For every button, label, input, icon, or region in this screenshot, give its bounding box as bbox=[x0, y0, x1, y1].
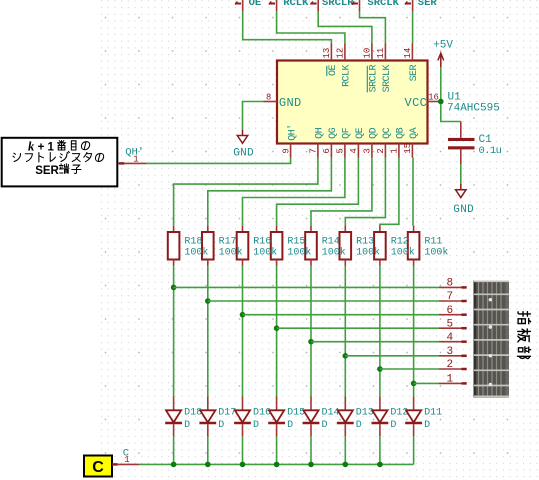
svg-text:1: 1 bbox=[390, 148, 400, 153]
connector pin 2 bbox=[439, 359, 467, 371]
pin 6 bbox=[322, 144, 332, 158]
junction node 5 bbox=[274, 325, 280, 331]
svg-text:D17: D17 bbox=[218, 408, 236, 419]
svg-text:1: 1 bbox=[133, 154, 138, 164]
pin 11 bbox=[376, 44, 386, 61]
wire net 4 bbox=[311, 341, 439, 343]
pin 10 bbox=[363, 44, 373, 61]
junction bbox=[240, 462, 246, 468]
wire bbox=[207, 436, 209, 464]
pin 5 bbox=[336, 144, 346, 158]
svg-text:1: 1 bbox=[447, 374, 454, 386]
label QH&#39; with pin 1 bbox=[119, 147, 147, 165]
wire net 8 bbox=[174, 286, 439, 288]
label C pin 1 bbox=[112, 447, 139, 465]
svg-text:1: 1 bbox=[124, 455, 129, 465]
svg-text:100k: 100k bbox=[184, 247, 208, 259]
svg-text:15: 15 bbox=[403, 143, 413, 154]
svg-text:100k: 100k bbox=[356, 247, 380, 259]
resistor R15 100k bbox=[271, 226, 283, 266]
op-amp U1 74AHC595 shift register body bbox=[277, 61, 428, 144]
svg-text:QA: QA bbox=[409, 127, 420, 138]
svg-text:0.1u: 0.1u bbox=[479, 145, 502, 157]
svg-text:QB: QB bbox=[396, 127, 407, 138]
pin name RCLK bbox=[342, 65, 353, 87]
wire +5V to VCC bbox=[440, 67, 442, 99]
resistor R14 100k bbox=[305, 226, 317, 266]
svg-text:QG: QG bbox=[328, 127, 339, 138]
junction node 6 bbox=[240, 312, 246, 318]
svg-text:SRCLR: SRCLR bbox=[369, 65, 380, 93]
svg-text:SRCLK: SRCLK bbox=[382, 65, 393, 93]
junction at VCC bbox=[438, 99, 444, 105]
svg-text:R14: R14 bbox=[322, 236, 340, 247]
value labels R11 bbox=[424, 236, 448, 258]
junction node 8 bbox=[171, 285, 177, 291]
ground (left of IC) bbox=[233, 130, 254, 160]
value labels R13 bbox=[356, 236, 380, 258]
ground (below C1) bbox=[453, 184, 474, 216]
resistor R17 100k bbox=[202, 226, 214, 266]
resistor R13 100k bbox=[340, 226, 352, 266]
wire bbox=[345, 158, 385, 226]
svg-text:C: C bbox=[92, 459, 104, 476]
svg-text:3: 3 bbox=[447, 346, 454, 358]
svg-text:100k: 100k bbox=[287, 247, 311, 259]
pin 9 bbox=[281, 144, 291, 158]
wire bbox=[379, 436, 381, 464]
svg-text:100k: 100k bbox=[391, 247, 415, 259]
connector pin 3 bbox=[439, 346, 467, 358]
svg-text:R18: R18 bbox=[184, 236, 202, 247]
pin 3 bbox=[363, 144, 373, 158]
diode D11 bbox=[405, 397, 442, 437]
junction node 7 bbox=[205, 298, 211, 304]
svg-text:14: 14 bbox=[403, 48, 413, 59]
value labels R17 bbox=[219, 236, 243, 258]
svg-text:74AHC595: 74AHC595 bbox=[447, 103, 500, 115]
svg-text:D14: D14 bbox=[322, 408, 340, 419]
svg-text:12: 12 bbox=[336, 48, 346, 59]
wire bottom bus bbox=[139, 463, 414, 465]
wire junction to C1 bbox=[441, 104, 461, 122]
svg-text:8: 8 bbox=[447, 278, 454, 290]
wire bbox=[173, 436, 175, 464]
svg-text:R11: R11 bbox=[424, 236, 442, 247]
svg-text:8: 8 bbox=[266, 92, 271, 102]
wire net 5 bbox=[277, 327, 439, 329]
svg-text:RCLK: RCLK bbox=[283, 0, 309, 9]
svg-text:R15: R15 bbox=[287, 236, 305, 247]
svg-text:D11: D11 bbox=[424, 408, 442, 419]
wire QH&#39; to pin 9 bbox=[147, 158, 291, 164]
wire C1 to GND bbox=[460, 164, 462, 184]
junction bbox=[377, 462, 383, 468]
svg-text:GND: GND bbox=[453, 204, 474, 216]
svg-text:GND: GND bbox=[233, 148, 254, 160]
svg-text:SRCLR: SRCLR bbox=[322, 0, 354, 9]
junction bbox=[308, 462, 314, 468]
svg-text:QF: QF bbox=[342, 127, 353, 138]
connector pin 5 bbox=[439, 318, 467, 330]
svg-text:SER: SER bbox=[35, 165, 59, 177]
svg-text:D: D bbox=[390, 420, 396, 431]
pin 7 bbox=[309, 144, 319, 158]
value labels R16 bbox=[253, 236, 277, 258]
value labels R18 bbox=[184, 236, 208, 258]
svg-text:9: 9 bbox=[281, 148, 291, 153]
svg-text:4: 4 bbox=[447, 332, 454, 344]
svg-text:R13: R13 bbox=[356, 236, 374, 247]
annotation box: k+1 shift register SER terminal bbox=[2, 138, 118, 187]
junction bbox=[171, 462, 177, 468]
svg-text:100k: 100k bbox=[253, 247, 277, 259]
svg-text:QD: QD bbox=[369, 127, 380, 138]
connector pin lead SER (cut off at top) bbox=[405, 0, 413, 11]
capacitor C1 bbox=[448, 122, 502, 165]
svg-text:D12: D12 bbox=[390, 408, 408, 419]
wire net 3 bbox=[345, 355, 439, 357]
svg-text:100k: 100k bbox=[424, 247, 448, 259]
diode D15 bbox=[268, 397, 305, 437]
junction node 1 bbox=[411, 381, 417, 387]
svg-text:RCLK: RCLK bbox=[342, 65, 353, 87]
wire bbox=[173, 266, 175, 397]
diode D13 bbox=[337, 397, 374, 437]
wire bbox=[379, 266, 381, 397]
pin 15 bbox=[403, 143, 413, 158]
junction bbox=[205, 462, 211, 468]
wire bbox=[277, 11, 345, 44]
svg-text:+ 1: + 1 bbox=[38, 141, 55, 153]
pin 13 bbox=[322, 44, 332, 61]
pin 16 bbox=[428, 92, 441, 102]
junction node 2 bbox=[377, 366, 383, 372]
svg-text:R16: R16 bbox=[253, 236, 271, 247]
svg-text:100k: 100k bbox=[322, 247, 346, 259]
svg-text:D15: D15 bbox=[287, 408, 305, 419]
wire bbox=[242, 436, 244, 464]
svg-text:QH': QH' bbox=[286, 124, 298, 140]
fingerboard photo (指板部) bbox=[474, 281, 510, 398]
wire bbox=[413, 436, 415, 464]
connector pin lead SRCLR (cut off at top) bbox=[311, 0, 319, 11]
svg-text:D18: D18 bbox=[184, 408, 202, 419]
wire net 1 bbox=[414, 382, 439, 384]
connector pin 4 bbox=[439, 332, 467, 344]
svg-text:SER: SER bbox=[409, 65, 420, 82]
svg-text:D: D bbox=[356, 420, 362, 431]
svg-text:QH: QH bbox=[315, 127, 326, 138]
pin 2 bbox=[376, 144, 386, 158]
svg-text:16: 16 bbox=[428, 92, 439, 102]
svg-text:4: 4 bbox=[349, 148, 359, 153]
vertical caption 指板部 bbox=[518, 312, 531, 359]
wire net 6 bbox=[243, 314, 440, 316]
wire bbox=[380, 158, 399, 226]
svg-text:6: 6 bbox=[322, 148, 332, 153]
svg-text:D: D bbox=[287, 420, 293, 431]
svg-text:5: 5 bbox=[336, 148, 346, 153]
pin name SRCLR bbox=[367, 65, 379, 93]
junction bbox=[343, 462, 349, 468]
junction node 4 bbox=[308, 339, 314, 345]
pin 8 bbox=[264, 92, 278, 102]
pin 14 bbox=[403, 44, 413, 61]
wire bbox=[276, 266, 278, 397]
resistor R11 100k bbox=[408, 226, 420, 266]
wire bbox=[318, 11, 372, 44]
svg-text:7: 7 bbox=[309, 148, 319, 153]
wire bbox=[243, 11, 332, 44]
resistor R18 100k bbox=[168, 226, 180, 266]
connector pin 1 bbox=[439, 374, 467, 386]
svg-text:SER: SER bbox=[418, 0, 438, 9]
pin 4 bbox=[349, 144, 359, 158]
pin name SRCLK bbox=[382, 65, 393, 93]
wire SER to pin 14 bbox=[412, 11, 414, 44]
power +5V bbox=[433, 40, 453, 67]
svg-text:6: 6 bbox=[447, 305, 454, 317]
diode D12 bbox=[372, 397, 409, 437]
svg-text:5: 5 bbox=[447, 318, 454, 330]
resistor R16 100k bbox=[237, 226, 249, 266]
svg-text:D16: D16 bbox=[253, 408, 271, 419]
resistor R12 100k bbox=[374, 226, 386, 266]
svg-text:QC: QC bbox=[382, 127, 393, 138]
connector pin 8 bbox=[439, 278, 467, 290]
diode D16 bbox=[234, 397, 271, 437]
connector pin lead RCLK (cut off at top) bbox=[269, 0, 277, 11]
wire bbox=[311, 158, 372, 226]
value labels R12 bbox=[391, 236, 415, 258]
wire bbox=[310, 266, 312, 397]
wire bbox=[344, 266, 346, 397]
wire bbox=[360, 11, 386, 44]
svg-text:QE: QE bbox=[355, 127, 366, 138]
wire bbox=[413, 266, 415, 397]
svg-text:10: 10 bbox=[363, 48, 373, 59]
pin 1 bbox=[390, 144, 400, 158]
svg-text:2: 2 bbox=[376, 148, 386, 153]
value labels R15 bbox=[287, 236, 311, 258]
svg-text:D: D bbox=[253, 420, 259, 431]
svg-text:7: 7 bbox=[447, 291, 454, 303]
wire bbox=[207, 266, 209, 397]
svg-text:OE: OE bbox=[328, 64, 339, 75]
svg-text:SRCLK: SRCLK bbox=[367, 0, 399, 9]
connector pin 6 bbox=[439, 305, 467, 317]
wire bbox=[344, 436, 346, 464]
svg-text:k: k bbox=[28, 140, 35, 154]
svg-text:+5V: +5V bbox=[433, 40, 453, 52]
svg-text:VCC: VCC bbox=[405, 96, 428, 110]
svg-text:11: 11 bbox=[376, 48, 386, 59]
wire net 2 bbox=[380, 368, 439, 370]
wire net 7 bbox=[208, 300, 439, 302]
wire bbox=[276, 436, 278, 464]
svg-text:U1: U1 bbox=[448, 91, 462, 103]
wire bbox=[174, 158, 318, 226]
svg-text:D: D bbox=[424, 420, 430, 431]
wire pin15 to R11 bbox=[412, 158, 414, 226]
junction bbox=[274, 462, 280, 468]
wire bbox=[208, 158, 332, 226]
wire bbox=[243, 158, 345, 226]
wire bbox=[310, 436, 312, 464]
svg-text:C1: C1 bbox=[479, 134, 493, 146]
svg-text:R17: R17 bbox=[219, 236, 237, 247]
wire bbox=[277, 158, 359, 226]
connector pin lead OE (cut off at top) bbox=[235, 0, 243, 11]
pin 12 bbox=[336, 44, 346, 61]
pin name OE bbox=[327, 64, 339, 75]
svg-text:D: D bbox=[218, 420, 224, 431]
svg-text:13: 13 bbox=[322, 48, 332, 59]
label box C bbox=[84, 456, 112, 477]
diode D18 bbox=[165, 397, 202, 437]
connector pin 7 bbox=[439, 291, 467, 303]
svg-text:R12: R12 bbox=[391, 236, 409, 247]
svg-text:D13: D13 bbox=[356, 408, 374, 419]
svg-text:100k: 100k bbox=[219, 247, 243, 259]
svg-text:3: 3 bbox=[363, 148, 373, 153]
value labels R14 bbox=[322, 236, 346, 258]
junction node 3 bbox=[343, 353, 349, 359]
svg-text:2: 2 bbox=[447, 359, 454, 371]
svg-text:OE: OE bbox=[249, 0, 262, 9]
svg-text:GND: GND bbox=[279, 96, 302, 110]
connector pin lead SRCLK (cut off at top) bbox=[352, 0, 360, 11]
diode D17 bbox=[199, 397, 236, 437]
svg-text:D: D bbox=[322, 420, 328, 431]
diode D14 bbox=[303, 397, 340, 437]
wire pin8 to GND bbox=[243, 102, 264, 131]
svg-text:D: D bbox=[184, 420, 190, 431]
wire bbox=[242, 266, 244, 397]
pin name SER bbox=[409, 65, 420, 82]
